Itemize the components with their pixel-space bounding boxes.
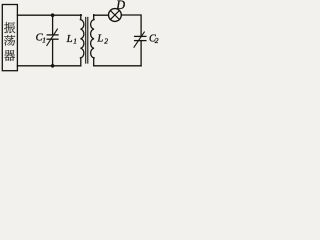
capacitor C2 arrow slash	[134, 32, 144, 47]
svg-text:1: 1	[42, 35, 46, 44]
svg-text:2: 2	[104, 37, 108, 46]
lamp D circle	[109, 9, 122, 22]
capacitor C1 arrow slash	[47, 29, 58, 46]
junction node bottom (C1/bottom wire)	[51, 64, 55, 68]
lamp D cross	[110, 11, 119, 20]
transformer core	[85, 17, 87, 63]
label 器	[4, 50, 15, 61]
inductor L1 winding	[80, 15, 83, 66]
capacitor C1 top lead	[52, 15, 54, 34]
wire L2 top to lamp D	[94, 14, 109, 16]
oscillator box 振荡器	[2, 5, 17, 71]
svg-text:L: L	[96, 34, 103, 45]
wire lamp D to C2	[121, 15, 141, 36]
inductor L2 winding	[91, 15, 94, 66]
capacitor C1 bottom lead	[52, 39, 54, 66]
svg-text:2: 2	[155, 36, 159, 45]
capacitor C2 plates	[135, 35, 146, 37]
wire bottom (L2 to C2)	[94, 65, 141, 67]
svg-text:D: D	[115, 0, 125, 12]
label 荡	[4, 35, 15, 46]
svg-text:1: 1	[73, 37, 77, 46]
wire bottom (oscillator to L1)	[17, 65, 80, 67]
junction node top (C1/top wire)	[51, 13, 55, 17]
capacitor C1 plates	[47, 34, 58, 36]
wire top (oscillator to L1)	[17, 14, 81, 16]
svg-text:L: L	[66, 34, 73, 45]
capacitor C2 bottom lead	[140, 41, 142, 66]
label 振	[4, 22, 15, 33]
background	[0, 0, 160, 76]
